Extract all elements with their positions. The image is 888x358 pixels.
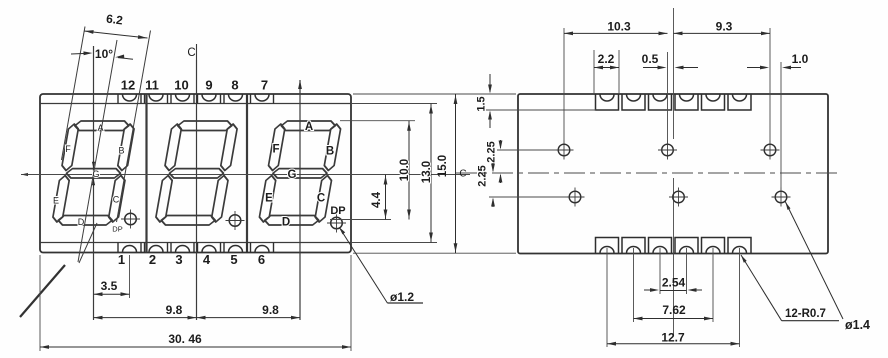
svg-text:9.8: 9.8 xyxy=(262,303,279,317)
extension lines for 2.2 pad width xyxy=(593,50,595,93)
back view top pad 2 xyxy=(622,94,645,110)
svg-text:15.0: 15.0 xyxy=(437,155,449,177)
dimension 6.2 line with arrows xyxy=(84,31,148,38)
svg-text:5: 5 xyxy=(230,252,237,267)
extension line for 13.0 top xyxy=(351,103,437,105)
back view vertical centerline xyxy=(673,8,675,139)
leader stroke at lower-left pointing to package corner xyxy=(20,265,65,317)
back view bottom pad 4 xyxy=(675,238,698,254)
bottom castellated pad pin 5 xyxy=(223,243,225,253)
dimension 0.5 offset arrows xyxy=(643,67,660,69)
dimension 2.54 pad pitch xyxy=(660,290,687,292)
extension line to bottom hole row xyxy=(489,196,567,198)
extension line for pad depth 1.5 xyxy=(486,109,596,111)
svg-text:6.2: 6.2 xyxy=(105,12,124,28)
extension line above left top hole xyxy=(563,28,565,141)
svg-text:C: C xyxy=(317,193,325,205)
digit 1 slanted axis line (10 deg) xyxy=(78,40,117,262)
small arrows marking segment G on digit 1 centerline xyxy=(93,161,95,166)
dimension 15.0 vertical xyxy=(455,94,457,253)
svg-text:1: 1 xyxy=(118,252,125,267)
extension line below pin 1 xyxy=(129,255,131,298)
svg-text:13.0: 13.0 xyxy=(421,161,433,183)
back view bottom pad 1 xyxy=(596,238,619,254)
top castellated pad pin 7 xyxy=(250,94,252,103)
extension line above middle top hole xyxy=(667,52,669,141)
extension line below left package edge xyxy=(39,255,41,351)
extension line above right bottom hole xyxy=(780,62,782,188)
plated through hole top 3 xyxy=(764,144,776,156)
seven-segment digit 2 outline (segments A-G) xyxy=(155,121,239,225)
svg-text:4: 4 xyxy=(203,252,211,267)
decimal point DP of digit 3 xyxy=(331,217,343,229)
digit 2 vertical centerline xyxy=(196,60,198,320)
svg-text:2.25: 2.25 xyxy=(477,165,489,186)
dimension 9.8 (digit2 to digit3 center) xyxy=(197,317,301,319)
svg-text:9: 9 xyxy=(205,78,212,93)
svg-text:DP: DP xyxy=(112,225,122,234)
seven-segment digit 1 outline (segments A-G) xyxy=(52,121,136,225)
svg-text:9.3: 9.3 xyxy=(716,20,733,34)
extension line below back pad 1 xyxy=(606,248,608,347)
decimal point DP of digit 2 xyxy=(229,215,241,227)
svg-text:C: C xyxy=(113,195,120,205)
digit 1 vertical centerline xyxy=(93,46,95,320)
back view bottom pad 5 xyxy=(702,238,725,254)
plated through hole bottom 2 xyxy=(673,191,685,203)
left view package body outline xyxy=(40,94,351,253)
svg-text:F: F xyxy=(65,144,71,154)
svg-text:ø1.4: ø1.4 xyxy=(845,318,870,332)
svg-text:A: A xyxy=(305,121,313,133)
left view bottom inner band line xyxy=(40,242,351,244)
plated through hole bottom 3 xyxy=(775,191,787,203)
horizontal centerline of front view with left arrowhead xyxy=(21,174,470,176)
extension line for 4.4 bottom (digit bottom) xyxy=(330,219,391,221)
back view bottom pad 3 xyxy=(649,238,672,254)
svg-text:10°: 10° xyxy=(95,47,113,61)
dimension 1.5 vertical xyxy=(489,74,491,92)
svg-text:B: B xyxy=(118,146,124,156)
svg-text:3.5: 3.5 xyxy=(101,279,118,293)
svg-text:2.54: 2.54 xyxy=(662,276,686,290)
dimension 30.46 overall width xyxy=(40,346,351,348)
dimension 9.8 (digit1 to digit2 center) xyxy=(94,317,197,319)
dimension 3.5 (digit1 center to pin1) xyxy=(94,293,130,295)
bottom castellated pad pin 2 xyxy=(144,243,146,253)
dimension 2.2 xyxy=(594,67,619,69)
back view top pad 1 xyxy=(596,94,619,110)
svg-text:E: E xyxy=(265,193,273,205)
svg-text:ø1.2: ø1.2 xyxy=(390,290,414,304)
dimension 2.25 upper xyxy=(500,140,502,148)
digit cell separator line between digit 2 and digit 3 xyxy=(246,94,248,253)
bottom castellated pad pin 4 xyxy=(197,243,199,253)
svg-text:C: C xyxy=(459,169,466,180)
bottom castellated pad pin 1 xyxy=(117,243,119,253)
svg-text:B: B xyxy=(326,146,334,158)
svg-text:C: C xyxy=(187,47,195,59)
svg-text:F: F xyxy=(272,144,279,156)
back view top pad 3 xyxy=(649,94,672,110)
leader line from DP of digit 3 xyxy=(340,229,387,304)
extension line below right package edge xyxy=(350,255,352,351)
leader 12-R0.7 pointing to pad notch xyxy=(741,255,782,321)
svg-text:6: 6 xyxy=(258,252,265,267)
back view top pad 5 xyxy=(702,94,725,110)
digit 3 vertical centerline with top arrowhead xyxy=(299,80,301,320)
top castellated pad pin 9 xyxy=(197,94,199,103)
svg-text:9.8: 9.8 xyxy=(166,303,183,317)
dimension 10 deg left arrow xyxy=(71,52,90,55)
thin leader into digit 1 bottom area xyxy=(79,223,97,263)
seven-segment digit 3 outline (segments A-G) xyxy=(258,121,342,225)
back view bottom pad 6 xyxy=(728,238,751,254)
svg-text:11: 11 xyxy=(145,78,159,93)
svg-text:7.62: 7.62 xyxy=(662,303,686,317)
extension line connecting bottom edges of both views xyxy=(353,252,516,254)
extension line below back pad 3 xyxy=(659,248,661,294)
svg-text:8: 8 xyxy=(231,78,238,93)
top castellated pad pin 8 xyxy=(223,94,225,103)
extension line to top hole row xyxy=(497,149,556,151)
svg-text:1.0: 1.0 xyxy=(792,52,809,66)
svg-text:G: G xyxy=(288,169,297,181)
top castellated pad pin 10 xyxy=(170,94,172,103)
bottom castellated pad pin 3 xyxy=(170,243,172,253)
dimension 7.62 xyxy=(634,318,714,320)
extension line above right top hole xyxy=(769,28,771,141)
back view package body outline xyxy=(518,94,828,254)
svg-text:2: 2 xyxy=(149,252,156,267)
extension line below back pad 6 xyxy=(739,248,741,347)
svg-text:7: 7 xyxy=(261,78,268,93)
extension line below back pad 2 xyxy=(633,248,635,322)
plated through hole bottom 1 xyxy=(569,191,581,203)
svg-text:1.5: 1.5 xyxy=(476,96,488,111)
svg-text:12-R0.7: 12-R0.7 xyxy=(785,308,826,320)
extension line for 10.0 top (digit top) xyxy=(340,120,415,122)
slant construction line left (digit width extension) xyxy=(62,27,86,161)
svg-text:DP: DP xyxy=(330,205,345,217)
bottom castellated pad pin 6 xyxy=(250,243,252,253)
svg-text:12: 12 xyxy=(121,78,135,93)
dimension 9.3 xyxy=(674,32,771,34)
top castellated pad pin 11 xyxy=(144,94,146,103)
svg-text:30. 46: 30. 46 xyxy=(168,332,202,346)
slant construction line right (digit width extension) xyxy=(117,31,151,223)
dimension 12.7 xyxy=(607,343,740,345)
back view top pad 4 xyxy=(675,94,698,110)
extension line for 13.0 bottom xyxy=(351,242,437,244)
back view bottom pad 2 xyxy=(622,238,645,254)
svg-text:2.2: 2.2 xyxy=(598,52,615,66)
svg-text:12.7: 12.7 xyxy=(661,331,685,345)
svg-text:10: 10 xyxy=(174,78,188,93)
extension line below back pad 5 xyxy=(712,248,714,322)
left view top inner band line xyxy=(40,103,351,105)
extension line below back pad 4 xyxy=(686,248,688,294)
leader phi 1.4 from bottom right hole xyxy=(785,201,843,319)
dimension 4.4 vertical xyxy=(385,175,387,220)
dimension 10 deg right arrow xyxy=(118,58,133,60)
back view top pad 6 xyxy=(728,94,751,110)
svg-text:4.4: 4.4 xyxy=(371,191,383,208)
svg-text:10.0: 10.0 xyxy=(399,159,411,181)
decimal point DP of digit 1 xyxy=(125,213,137,225)
svg-text:E: E xyxy=(53,196,59,206)
top castellated pad pin 12 xyxy=(117,94,119,103)
digit cell separator line between digit 1 and digit 2 xyxy=(145,94,147,253)
svg-text:10.3: 10.3 xyxy=(607,20,631,34)
dimension 10.0 vertical xyxy=(408,121,410,220)
svg-text:D: D xyxy=(282,217,290,229)
svg-text:D: D xyxy=(78,217,85,227)
plated through hole top 1 xyxy=(558,144,570,156)
extension line connecting top edges of both views xyxy=(353,93,516,95)
dimension 10.3 xyxy=(564,32,668,34)
svg-text:3: 3 xyxy=(175,252,182,267)
svg-text:0.5: 0.5 xyxy=(642,52,659,66)
plated through hole top 2 xyxy=(662,144,674,156)
back view horizontal centerline (dash-dot) xyxy=(456,172,838,174)
dimension 1.0 offset arrows xyxy=(747,67,763,69)
svg-text:2.25: 2.25 xyxy=(486,141,498,162)
dimension 2.25 lower xyxy=(492,163,494,171)
dimension 13.0 vertical xyxy=(430,104,432,243)
